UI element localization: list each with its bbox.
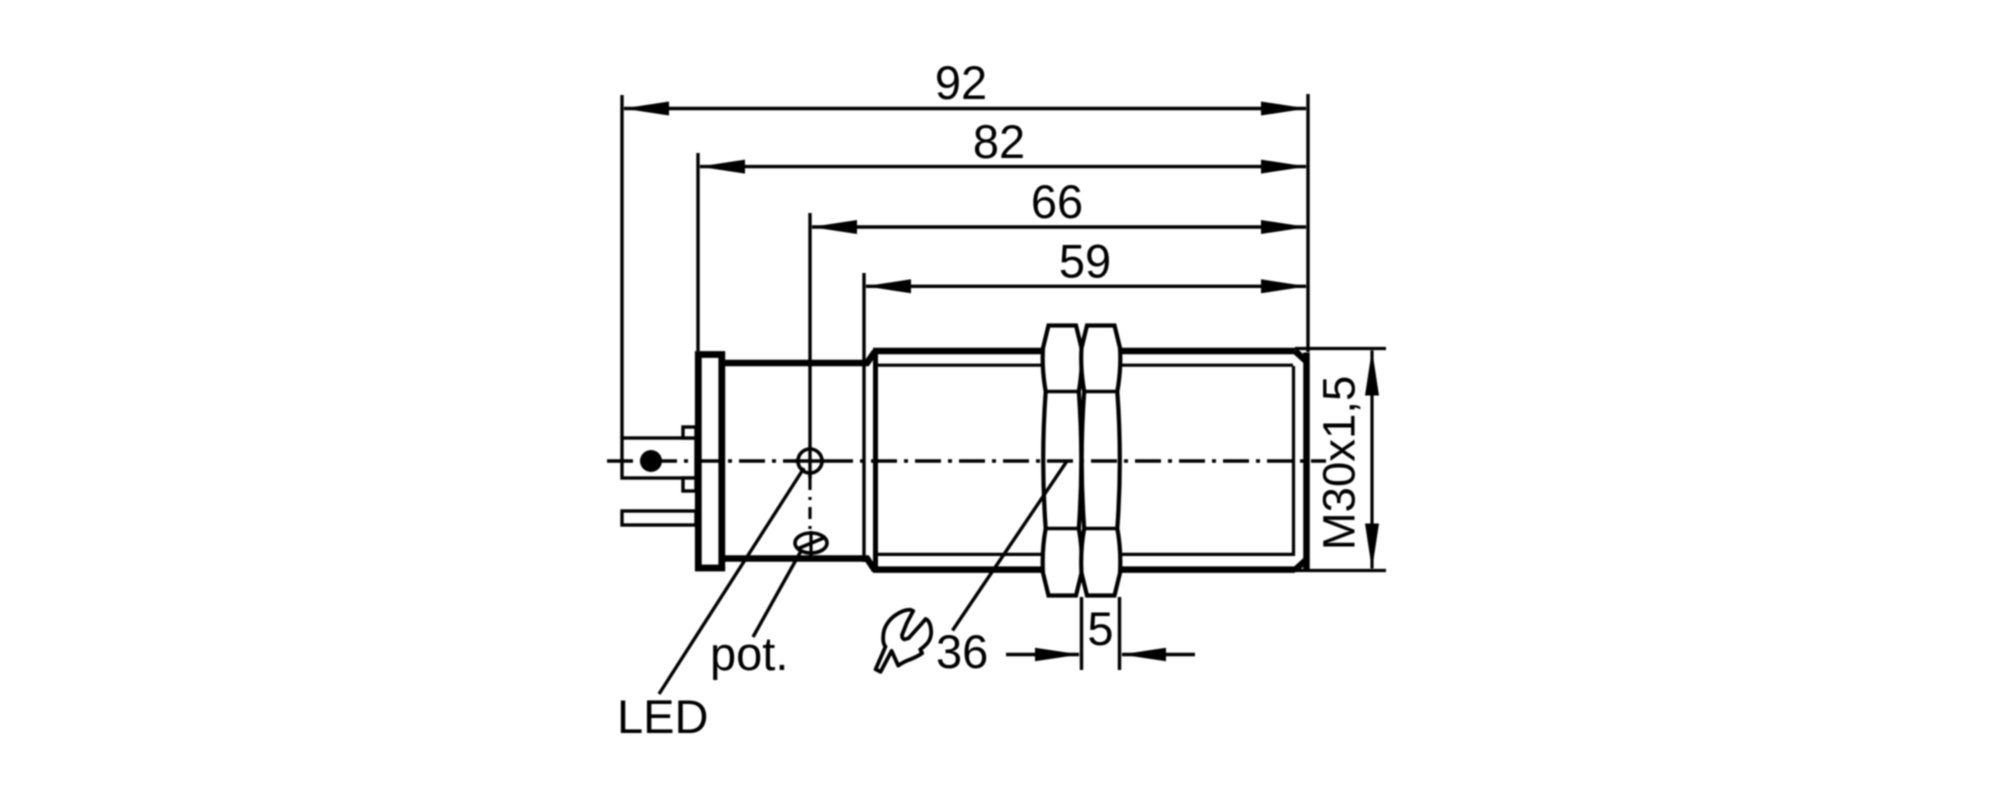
terminal screw dot <box>640 450 662 472</box>
M30 dimension line <box>1314 350 1380 570</box>
LED leader line <box>659 468 804 694</box>
M30 extension bottom <box>1295 569 1386 572</box>
extension line 82 left <box>696 153 699 351</box>
svg-text:82: 82 <box>973 115 1025 168</box>
dimension line 82 <box>699 115 1307 174</box>
extension line right common <box>1306 94 1309 352</box>
flange <box>698 355 722 569</box>
dimension line 66 <box>811 175 1307 234</box>
connector step top <box>683 427 696 438</box>
svg-text:LED: LED <box>617 690 708 743</box>
thread root top <box>878 364 1043 367</box>
LED circle <box>794 446 827 478</box>
vertical dash-dot axis to pot <box>808 478 811 557</box>
thread crest bottom <box>873 566 1043 573</box>
pot ellipse <box>795 531 827 557</box>
svg-text:92: 92 <box>935 56 987 109</box>
end face inner edge <box>1292 366 1295 556</box>
dimension line 59 <box>865 235 1307 294</box>
thread crest top <box>873 348 1043 355</box>
M30 extension top <box>1295 347 1386 350</box>
rear housing top edge <box>724 352 875 364</box>
pot leader line <box>753 551 801 637</box>
svg-text:5: 5 <box>1087 602 1113 655</box>
svg-text:pot.: pot. <box>710 627 788 680</box>
36 leader line <box>953 461 1068 631</box>
connector block <box>622 438 696 478</box>
connector tab <box>622 511 696 525</box>
wrench icon <box>876 610 932 672</box>
extension line 66 left / pot axis <box>808 213 811 478</box>
centerline <box>607 459 1326 463</box>
5 dimension arrows <box>1006 602 1195 661</box>
end chamfer top <box>1295 351 1306 361</box>
nut 2 <box>1081 326 1120 596</box>
rear housing bottom edge <box>724 559 875 571</box>
connector step bottom <box>683 478 696 491</box>
thread start face <box>873 352 878 571</box>
svg-text:59: 59 <box>1059 235 1111 288</box>
svg-text:66: 66 <box>1031 175 1083 228</box>
5 extension lines <box>1080 597 1083 670</box>
nut 1 <box>1043 326 1082 596</box>
svg-text:M30x1,5: M30x1,5 <box>1314 376 1365 551</box>
extension line 92 left <box>620 95 623 438</box>
sensing end face <box>1303 353 1310 570</box>
thread root bottom <box>878 553 1043 556</box>
svg-text:36: 36 <box>936 625 988 678</box>
dimension line 92 <box>623 56 1307 116</box>
end chamfer bottom <box>1295 560 1306 570</box>
extension line 59 left <box>862 273 865 562</box>
